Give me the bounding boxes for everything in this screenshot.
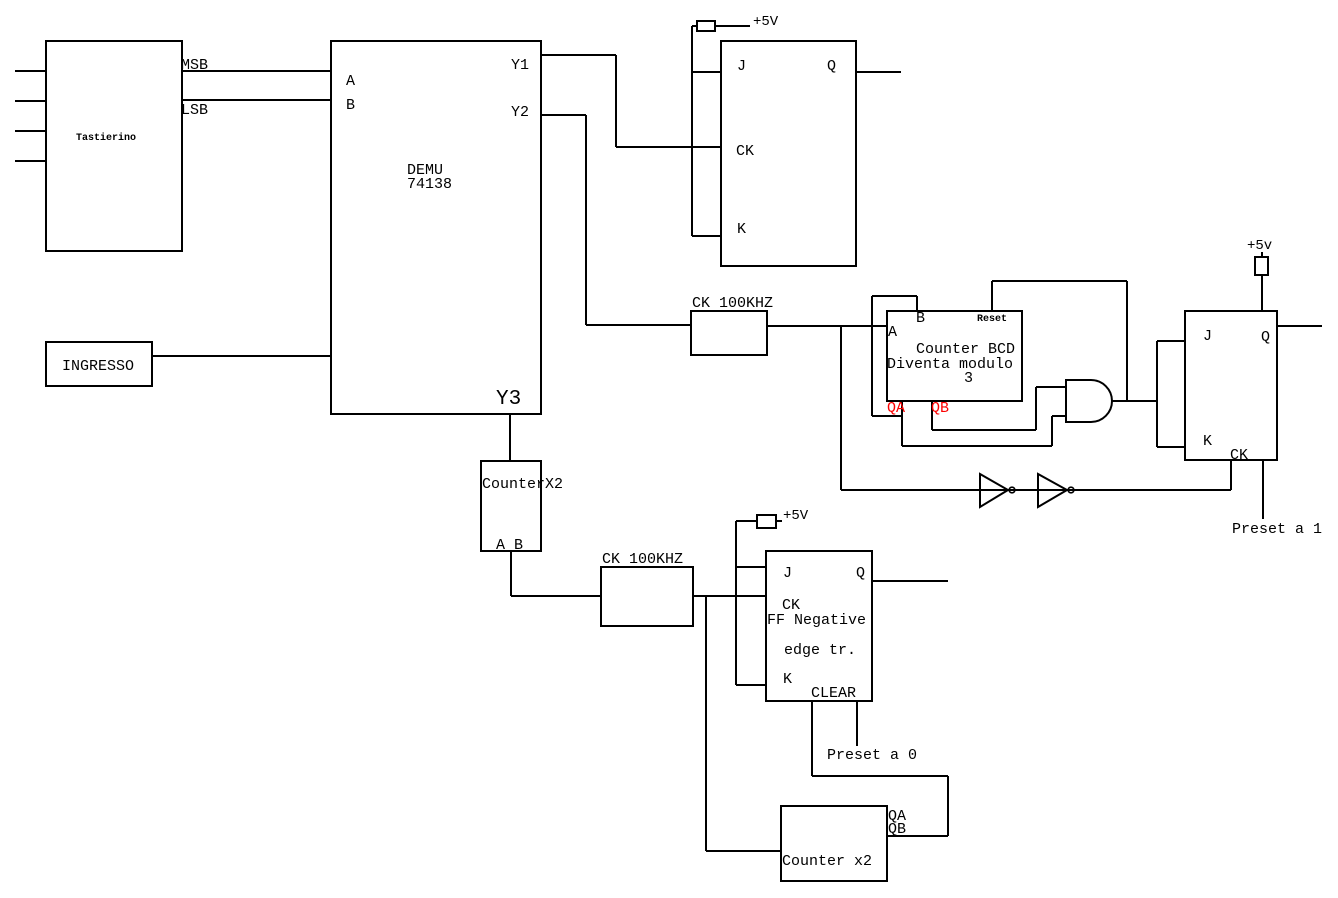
svg-text:QA: QA <box>887 400 905 417</box>
wire preset a 0 stub <box>856 701 858 746</box>
wire U4 J <box>1157 340 1185 342</box>
svg-text:CK 100KHZ: CK 100KHZ <box>602 551 683 568</box>
svg-text:Q: Q <box>1261 329 1270 346</box>
wire preset a 1 stub <box>1262 460 1264 519</box>
svg-text:Q: Q <box>827 58 836 75</box>
wire R3 to U4 <box>1261 275 1263 311</box>
wire QB pin vertical <box>931 401 933 430</box>
resistor R2 stub <box>736 520 757 522</box>
resistor R3 stub top <box>1261 252 1263 257</box>
wire QA pin vertical <box>901 401 903 446</box>
wire MSB <box>182 70 331 72</box>
wire U4 JK bracket <box>1156 341 1158 447</box>
resistor R2 stub right <box>776 520 782 522</box>
wire U7 pull-up vertical <box>735 521 737 685</box>
svg-text:+5V: +5V <box>753 14 779 30</box>
flip-flop U7 box <box>766 551 872 701</box>
wire U4 Q output <box>1277 325 1322 327</box>
block CounterX2 <box>481 461 541 551</box>
wire LSB <box>182 99 331 101</box>
svg-text:+5v: +5v <box>1247 238 1272 254</box>
resistor R2 <box>757 515 776 528</box>
wire to clock 2 <box>511 595 601 597</box>
wire clock1 to counter A <box>767 325 887 327</box>
wire Y1 to CK of U1 <box>616 146 721 148</box>
inverter U6 <box>1038 474 1067 507</box>
resistor R1 stub left <box>692 25 697 27</box>
resistor R1 <box>697 21 715 31</box>
svg-text:B: B <box>916 310 925 327</box>
svg-text:QB: QB <box>888 821 906 838</box>
svg-text:Y2: Y2 <box>511 104 529 121</box>
inverter U5 bubble <box>1009 487 1015 493</box>
svg-text:J: J <box>1203 328 1212 345</box>
wire QB horizontal <box>932 429 1036 431</box>
wire INGRESSO to DEMU <box>152 355 331 357</box>
svg-text:Tastierino: Tastierino <box>76 132 136 144</box>
wire clock2 to U7 CK <box>693 595 766 597</box>
svg-text:Diventa modulo: Diventa modulo <box>887 356 1013 373</box>
wire QA rise <box>1051 416 1053 446</box>
wire U1 Q output <box>856 71 901 73</box>
wire branch to counter x2 horizontal <box>706 850 781 852</box>
svg-text:3: 3 <box>964 370 973 387</box>
svg-text:Y3: Y3 <box>496 388 521 411</box>
input stub 3 <box>15 130 46 132</box>
svg-text:edge tr.: edge tr. <box>784 642 856 659</box>
wire QA to AND input <box>1052 415 1066 417</box>
flip-flop U4 box <box>1185 311 1277 460</box>
svg-text:Y1: Y1 <box>511 57 529 74</box>
wire U7 J <box>736 566 766 568</box>
wire U7 CLEAR pin <box>811 701 813 776</box>
wire reset vertical <box>1126 281 1128 401</box>
svg-text:INGRESSO: INGRESSO <box>62 358 134 375</box>
wire branch to inverters <box>840 326 842 490</box>
svg-text:CLEAR: CLEAR <box>811 685 856 702</box>
wire U1 J <box>692 71 721 73</box>
block Counter BCD U2 <box>887 311 1022 401</box>
wire QB to AND input <box>1036 386 1066 388</box>
svg-text:74138: 74138 <box>407 176 452 193</box>
svg-text:CK 100KHZ: CK 100KHZ <box>692 295 773 312</box>
svg-text:+5V: +5V <box>783 508 809 524</box>
svg-text:CK: CK <box>736 143 754 160</box>
svg-text:J: J <box>783 565 792 582</box>
wire Y1 vertical <box>615 55 617 147</box>
block Counter x2 <box>781 806 887 881</box>
wire U1 K <box>692 235 721 237</box>
resistor R3 <box>1255 257 1268 275</box>
wire U4 K <box>1157 446 1185 448</box>
wire drop to B pin <box>916 296 918 311</box>
input stub 1 <box>15 70 46 72</box>
inverter U5 <box>980 474 1008 507</box>
wire U7 Q output <box>872 580 948 582</box>
wire AND output <box>1112 400 1157 402</box>
svg-text:Preset a 0: Preset a 0 <box>827 747 917 764</box>
wire QB rise <box>1035 387 1037 430</box>
wire QB of counter x2 <box>887 835 948 837</box>
wire QA horizontal <box>902 445 1052 447</box>
wire QA feedback bottom <box>872 415 902 417</box>
wire CounterX2 down <box>510 551 512 596</box>
svg-text:QB: QB <box>931 400 949 417</box>
wire R1 to +5V label <box>715 25 750 27</box>
svg-text:B: B <box>346 97 355 114</box>
svg-text:CK: CK <box>1230 447 1248 464</box>
svg-text:MSB: MSB <box>181 57 208 74</box>
wire branch to counter x2 vertical <box>705 596 707 851</box>
wire Y2 horizontal <box>541 114 586 116</box>
wire U4 CK pin <box>1230 460 1232 490</box>
block DEMU 74138 <box>331 41 541 414</box>
wire Y3 stub <box>509 414 511 461</box>
wire QA feedback top <box>872 295 917 297</box>
input stub 4 <box>15 160 46 162</box>
svg-text:J: J <box>737 58 746 75</box>
svg-text:K: K <box>783 671 792 688</box>
svg-text:Q: Q <box>856 565 865 582</box>
svg-text:A: A <box>888 324 897 341</box>
wire Y1 horizontal <box>541 54 616 56</box>
input stub 2 <box>15 100 46 102</box>
svg-text:A: A <box>346 73 355 90</box>
wire U7 K <box>736 684 766 686</box>
block Tastierino <box>46 41 182 251</box>
block CK 100KHZ clock 1 <box>691 311 767 355</box>
wire reset drop <box>991 281 993 311</box>
wire U1 pull-up vertical <box>691 26 693 236</box>
block CK 100KHZ clock 2 <box>601 567 693 626</box>
svg-text:Preset a 1: Preset a 1 <box>1232 521 1322 538</box>
svg-text:A B: A B <box>496 537 523 554</box>
svg-text:FF Negative: FF Negative <box>767 612 866 629</box>
wire clock through inverters to U4 CK <box>841 489 1231 491</box>
svg-text:CounterX2: CounterX2 <box>482 476 563 493</box>
svg-text:LSB: LSB <box>181 102 208 119</box>
svg-text:Counter x2: Counter x2 <box>782 853 872 870</box>
inverter U6 bubble <box>1068 487 1074 493</box>
wire clear drop <box>947 776 949 836</box>
wire QA feedback vertical <box>871 296 873 416</box>
svg-text:K: K <box>1203 433 1212 450</box>
wire reset horizontal <box>992 280 1127 282</box>
svg-text:K: K <box>737 221 746 238</box>
wire Y2 vertical <box>585 115 587 325</box>
svg-text:Reset: Reset <box>977 314 1007 325</box>
flip-flop U1 box <box>721 41 856 266</box>
AND gate U3 <box>1066 380 1112 422</box>
block INGRESSO <box>46 342 152 386</box>
wire clear horizontal <box>812 775 948 777</box>
wire Y2 to CK 100KHZ box <box>586 324 691 326</box>
